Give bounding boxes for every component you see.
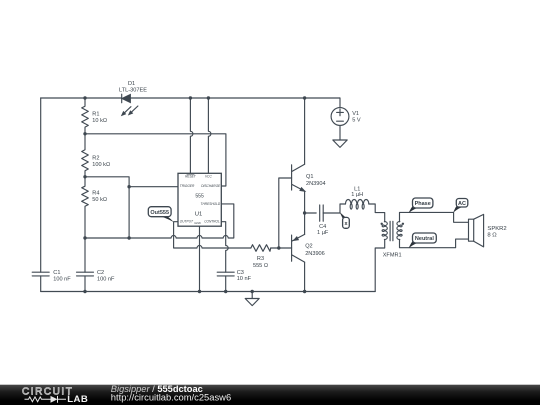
svg-text:10 kΩ: 10 kΩ <box>92 118 107 124</box>
ground at bottom rail <box>245 292 259 306</box>
junction C2 on ground rail <box>83 290 86 293</box>
phasing dot xfmr primary <box>381 223 383 225</box>
svg-text:100 nF: 100 nF <box>97 276 115 282</box>
wire top rail left <box>41 97 122 99</box>
svg-text:100 kΩ: 100 kΩ <box>92 162 110 168</box>
diode D1 triangle <box>122 94 131 102</box>
svg-text:C2: C2 <box>97 270 104 276</box>
junction R1/R2/discharge node <box>83 132 86 135</box>
svg-text:Q1: Q1 <box>306 174 313 180</box>
svg-text:TRIGGER: TRIGGER <box>180 184 195 188</box>
transistor Q1 <box>292 164 305 191</box>
svg-text:RESET: RESET <box>185 175 197 179</box>
phasing dot xfmr secondary <box>402 223 404 225</box>
junction trigger node <box>127 185 130 188</box>
wire xfmr left bottom lead <box>375 240 385 292</box>
resistor R1 <box>82 98 89 134</box>
flag Out555 <box>148 207 174 222</box>
svg-text:555: 555 <box>195 194 204 200</box>
junction trigger drop / threshold wire <box>127 236 130 239</box>
wire Q2 collector down <box>304 262 306 291</box>
wire xfmr right top lead <box>400 212 469 222</box>
svg-text:GND: GND <box>194 221 200 225</box>
capacitor C1 <box>32 272 49 276</box>
resistor R4 <box>82 177 89 238</box>
svg-text:2N3906: 2N3906 <box>305 251 325 257</box>
wire control net <box>221 222 228 273</box>
wire C2 bottom <box>84 276 86 292</box>
svg-text:Q2: Q2 <box>305 244 312 250</box>
LED arrowheads <box>122 112 126 116</box>
wire threshold net <box>85 204 234 238</box>
svg-text:Out555: Out555 <box>150 210 169 216</box>
wire reset drop <box>190 98 193 173</box>
transformer XFMR1 right winding <box>397 222 402 240</box>
junction VCC drop on V+ rail <box>207 96 210 99</box>
svg-text:1 µF: 1 µF <box>317 230 329 236</box>
node flag x <box>340 212 350 228</box>
junction R4 bottom / threshold wire <box>83 236 86 239</box>
ground below V1 <box>333 140 347 147</box>
wire Q1 collector up <box>304 98 306 164</box>
svg-text:DISCHARGE: DISCHARGE <box>201 184 221 188</box>
svg-text:AC: AC <box>458 201 466 207</box>
wire base link Q1-Q2 <box>279 178 292 248</box>
flag Phase <box>409 198 433 213</box>
transistor Q1 emitter arrow <box>300 188 305 192</box>
junction ground symbol on rail <box>251 290 254 293</box>
wire vcc drop <box>208 98 211 173</box>
junction RESET drop on V+ rail <box>189 96 192 99</box>
inductor L1 <box>346 199 369 209</box>
RESET overline <box>187 173 195 175</box>
wire C1 bottom to rail <box>40 276 42 292</box>
svg-text:1 µH: 1 µH <box>351 192 363 198</box>
svg-text:2N3904: 2N3904 <box>306 181 326 187</box>
wire bottom rail <box>41 291 376 293</box>
svg-text:OUTPUT: OUTPUT <box>180 220 194 224</box>
footer bar <box>0 385 540 405</box>
svg-text:Phase: Phase <box>415 201 431 207</box>
svg-text:R2: R2 <box>92 155 99 161</box>
svg-text:V1: V1 <box>352 111 359 117</box>
svg-text:Neutral: Neutral <box>415 236 434 242</box>
wire V1 top lead <box>339 98 342 108</box>
svg-text:D1: D1 <box>128 81 135 87</box>
wire output net <box>174 222 251 248</box>
svg-text:THRESHOLD: THRESHOLD <box>201 202 221 206</box>
junction C3 on ground rail <box>224 290 227 293</box>
svg-text:C1: C1 <box>53 270 60 276</box>
wire gnd pin drop <box>199 226 201 291</box>
flag AC <box>453 199 468 213</box>
transistor Q2 <box>292 234 305 262</box>
junction Q2 collector on ground rail <box>303 290 306 293</box>
svg-text:555 Ω: 555 Ω <box>253 263 268 269</box>
junction base node <box>277 246 280 249</box>
svg-text:XFMR1: XFMR1 <box>383 252 402 258</box>
svg-text:100 nF: 100 nF <box>53 276 71 282</box>
junction R1 top on V+ rail <box>83 96 86 99</box>
wire discharge net <box>85 134 226 186</box>
diode D1 cathode bar <box>121 94 123 103</box>
resistor R3 <box>251 245 271 252</box>
svg-text:50 kΩ: 50 kΩ <box>92 197 107 203</box>
svg-text:x: x <box>345 221 348 227</box>
wire C3 bottom <box>225 276 227 292</box>
svg-text:http://circuitlab.com/c25asw6: http://circuitlab.com/c25asw6 <box>111 392 231 403</box>
resistor R2 <box>82 134 89 177</box>
footer logo wire motif <box>25 396 67 403</box>
wire C4 left <box>305 212 317 214</box>
svg-text:VCC: VCC <box>205 175 212 179</box>
wire R3 right to base node <box>271 247 279 249</box>
transistor Q2 emitter arrow <box>294 237 299 241</box>
capacitor C3 <box>217 272 234 276</box>
svg-text:10 nF: 10 nF <box>237 276 252 282</box>
wire left vertical <box>40 98 42 272</box>
svg-text:LTL-307EE: LTL-307EE <box>119 87 147 93</box>
svg-text:R1: R1 <box>92 112 99 118</box>
voltage source V1 <box>331 108 349 126</box>
svg-text:SPKR2: SPKR2 <box>487 226 506 232</box>
wire R4 bottom to C2 <box>84 238 86 272</box>
wire L1 right lead to xfmr <box>369 204 385 222</box>
transformer XFMR1 left winding <box>382 222 387 240</box>
svg-text:R4: R4 <box>92 190 99 196</box>
svg-text:U1: U1 <box>195 211 203 217</box>
wire V1 bottom lead <box>339 125 341 140</box>
LED arrows <box>123 106 138 114</box>
junction emitter / C4 tap <box>303 211 306 214</box>
svg-text:R3: R3 <box>257 256 264 262</box>
op-amp U1 555 IC box <box>178 173 221 226</box>
svg-text:8 Ω: 8 Ω <box>487 233 497 239</box>
wire xfmr right bottom lead <box>400 239 469 248</box>
wire emitter vertical <box>304 191 306 234</box>
svg-text:LAB: LAB <box>67 394 88 405</box>
wire trigger net <box>85 177 178 238</box>
svg-text:CIRCUIT: CIRCUIT <box>22 386 73 397</box>
wire C4 right to x corner <box>323 204 345 213</box>
svg-text:5 V: 5 V <box>352 117 361 123</box>
flag Neutral <box>409 233 437 248</box>
transformer XFMR1 core <box>390 221 393 241</box>
junction Q1 collector on V+ rail <box>303 96 306 99</box>
wire top rail right <box>131 97 340 99</box>
junction R2/R4 node <box>83 175 86 178</box>
capacitor C4 <box>320 205 324 221</box>
capacitor C2 <box>77 272 94 276</box>
svg-text:CONTROL: CONTROL <box>204 220 220 224</box>
junction GND pin on ground rail <box>198 290 201 293</box>
speaker SPKR2 <box>469 219 474 241</box>
